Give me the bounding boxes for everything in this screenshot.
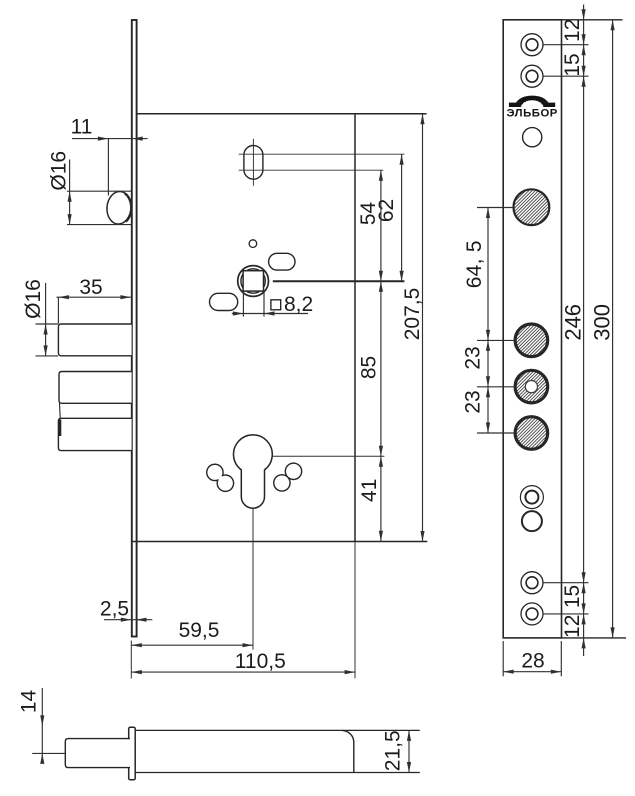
single thick hole — [522, 511, 542, 531]
dimension 207,5: rotated text — [401, 288, 424, 341]
dim line x422.5 (207,5) with arrows — [420, 114, 424, 542]
bottom view lock case right rounded corner — [342, 730, 354, 772]
spindle square hole 8.2 — [243, 271, 263, 291]
svg-text:11: 11 — [71, 116, 93, 139]
dimension 64,5: rotated text — [463, 240, 486, 288]
small pin hole — [249, 240, 257, 248]
latch bolt (side view, oval head) — [106, 191, 133, 226]
extension lines left of front view — [477, 208, 515, 434]
ELBOR logo text — [506, 108, 557, 120]
svg-text:23: 23 — [462, 346, 485, 369]
dimension 110,5: text — [235, 650, 286, 673]
dimension 35: dim line with arrows and extension — [57, 295, 132, 324]
screw hole top 1 — [521, 34, 543, 56]
latch hole (hatched) front view — [514, 189, 550, 225]
extension lines right of front view (screw holes) — [544, 45, 589, 614]
dimension 41: rotated text — [358, 479, 381, 502]
svg-text:Ø16: Ø16 — [48, 151, 71, 191]
svg-text:64, 5: 64, 5 — [463, 240, 486, 288]
dim line x583.6 (12/15/246/15/12) with arrows — [582, 5, 586, 657]
dimension 2,5: text — [100, 598, 129, 621]
bottom view latch bolt — [65, 739, 130, 768]
dimension 28: text — [521, 650, 544, 673]
lock body right edge — [354, 114, 356, 542]
svg-text:15: 15 — [561, 53, 584, 76]
faceplate bottom edge extension right — [562, 637, 627, 639]
dimension 11 (latch protrusion): text — [71, 116, 93, 139]
keyhole centre extension line down — [252, 508, 254, 649]
screw hole bottom 4 — [521, 603, 543, 625]
screw hole bottom 3 — [521, 572, 543, 594]
dimension 21,5: dim line with arrows — [407, 730, 411, 772]
dimension 15 bottom: rotated text — [561, 585, 584, 608]
spindle hub inner circle — [241, 269, 265, 293]
dim line x612.6 (300) with arrows — [611, 20, 615, 638]
screw post hole centers crosshair + extension to 62 dim — [239, 153, 405, 155]
bottom view faceplate flange — [129, 727, 136, 780]
svg-text:246: 246 — [561, 304, 586, 341]
deadbolt hole 1 (hatched, thick rim) — [515, 324, 548, 357]
screw hole top 2 — [521, 65, 543, 87]
svg-text:8,2: 8,2 — [284, 293, 313, 316]
svg-text:207,5: 207,5 — [401, 288, 424, 341]
faceplate front view outline — [503, 20, 561, 638]
oval slot upper right — [269, 253, 295, 270]
screw post lower crosshair + extension to 54 dim — [239, 169, 384, 171]
bottom view lock case bottom edge + extension — [135, 772, 420, 774]
dimension 300: rotated text — [590, 304, 615, 341]
svg-text:28: 28 — [521, 650, 544, 673]
bottom view lock case top edge + extension — [135, 729, 420, 731]
dimension 246: rotated text — [561, 304, 586, 341]
deadbolt 1 (side view) — [58, 324, 131, 356]
dimension 35 (deadbolt protrusion): text — [79, 276, 102, 299]
svg-text:110,5: 110,5 — [235, 650, 286, 673]
ELBOR logo emblem (arch over bar) — [509, 96, 555, 108]
keyhole centre extension line right (to 41 dim) — [272, 455, 384, 457]
concentric hole pair below bolts — [520, 486, 543, 509]
lock body top edge + extension to 207,5 dim — [138, 113, 427, 115]
dim line x401.6 (62) with arrows — [400, 154, 404, 281]
svg-text:35: 35 — [79, 276, 102, 299]
svg-text:Ø16: Ø16 — [22, 279, 45, 319]
dimension 14: dim line, arrows, extension — [32, 688, 65, 764]
thick extension line from spindle centre to dims — [273, 280, 405, 282]
svg-text:15: 15 — [561, 585, 584, 608]
deadbolt hole 3 (hatched, thick rim) — [515, 417, 548, 450]
dimension 15 top: rotated text — [561, 53, 584, 76]
dimension 59,5: dim line with arrows — [131, 643, 253, 647]
lock body bottom edge + extension — [132, 541, 428, 543]
deadbolt hole 2 (hatched, thick rim, centre hole) — [515, 370, 548, 403]
dimension 59,5: text — [179, 619, 220, 642]
dimension 21,5: rotated text — [381, 730, 404, 771]
svg-text:2,5: 2,5 — [100, 598, 129, 621]
dimension Ø16 latch: rotated text — [48, 151, 71, 191]
faceplate extension line below — [130, 641, 132, 679]
svg-text:21,5: 21,5 — [381, 730, 404, 771]
dimension 23 upper: rotated text — [462, 346, 485, 369]
euro cylinder keyhole — [234, 435, 273, 508]
dumbbell slot right of keyhole — [274, 463, 302, 491]
dimension Ø16 latch: dim line, arrows, extension lines — [67, 160, 131, 225]
dim line x380.9 (54/85/41) with arrows — [379, 170, 383, 541]
svg-text:300: 300 — [590, 304, 615, 341]
svg-text:ЭЛЬБОР: ЭЛЬБОР — [506, 108, 557, 120]
svg-text:14: 14 — [18, 690, 41, 714]
dumbbell slot left of keyhole — [207, 464, 234, 491]
faceplate top edge extension right — [562, 19, 623, 21]
dimension 12 top: rotated text — [561, 19, 584, 42]
svg-text:12: 12 — [561, 615, 584, 638]
dimension 28: dim line with arrows and extensions — [503, 641, 561, 676]
dimension square-8,2: square symbol and text — [271, 293, 313, 316]
dimension square-8,2: extension lines, dim line, arrows — [232, 291, 308, 316]
dimension 54: rotated text — [357, 202, 380, 226]
deadbolt 3 (side view) — [58, 418, 131, 450]
dimension 23 lower: rotated text — [462, 390, 485, 413]
plain hole below logo — [523, 128, 542, 147]
svg-text:41: 41 — [358, 479, 381, 502]
dimension 12 bottom: rotated text — [561, 615, 584, 638]
dimension 11: dim line and arrows — [72, 137, 148, 196]
screw post (stadium) with crosshairs — [244, 139, 263, 186]
dimension 14: rotated text — [18, 690, 41, 714]
svg-text:23: 23 — [462, 390, 485, 413]
dimension 2,5: dim line and arrows — [104, 618, 152, 622]
dimension 110,5: dim line with arrows — [131, 670, 355, 674]
spindle hub outer ring — [238, 266, 269, 297]
deadbolt 2-3 connecting edge — [59, 403, 62, 418]
oval slot lower left — [210, 293, 238, 310]
deadbolt 2 (side view) — [59, 372, 132, 404]
faceplate side view (double line strip) — [132, 20, 137, 637]
svg-text:12: 12 — [561, 19, 584, 42]
svg-text:85: 85 — [358, 356, 381, 379]
svg-text:59,5: 59,5 — [179, 619, 220, 642]
dimension 85: rotated text — [358, 356, 381, 379]
dimension Ø16 deadbolt: dim line, arrows, extension lines — [36, 283, 59, 356]
dimension Ø16 deadbolt: rotated text — [22, 279, 45, 319]
body right edge extension line down to 110,5 dim — [354, 542, 356, 679]
dimension 62: rotated text — [375, 199, 398, 222]
front view left dim line with arrows (64,5 / 23 / 23) — [486, 208, 490, 434]
svg-text:62: 62 — [375, 199, 398, 222]
